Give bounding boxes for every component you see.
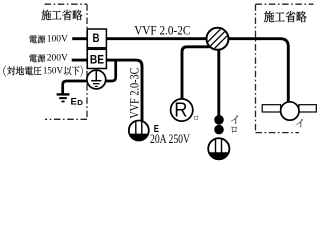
label: ro (switch) — [231, 127, 236, 133]
label: 電源100V — [29, 34, 68, 44]
switch ro — [214, 125, 224, 135]
wire: joint box to lamp receptacle R — [182, 47, 210, 100]
label: E (earth pole) — [154, 124, 160, 135]
svg-text:VVF 2.0-2C: VVF 2.0-2C — [134, 23, 190, 37]
label: 電源200V — [29, 53, 68, 63]
label: VVF 2.0-3C (vertical) — [127, 68, 141, 119]
svg-text:VVF 2.0-3C: VVF 2.0-3C — [127, 68, 141, 119]
VVF joint box (hatched circle) — [207, 28, 229, 50]
earth terminal (circle with earth mark) — [87, 70, 106, 89]
label: VVF 2.0-2C — [134, 23, 190, 37]
wire: 100V source lead — [72, 37, 88, 40]
label: 施工省略 (left) — [41, 10, 82, 20]
label: (対地電圧150V以下) — [3, 65, 82, 76]
ground electrode symbol — [57, 94, 70, 101]
wire: 200V source lead — [72, 59, 88, 62]
wire: earth terminal to ground electrode — [63, 81, 88, 94]
label: 施工省略 (right) — [264, 11, 307, 22]
construction-omitted boundary (left source region) — [45, 4, 88, 119]
wire: joint box down to switches — [217, 48, 220, 116]
svg-text:R: R — [174, 99, 187, 121]
label: ro (R) — [194, 116, 198, 120]
label: i (switch) — [231, 115, 238, 124]
breaker B (MCB) — [87, 29, 106, 48]
wire: BE to 250V receptacle (VVF 2.0-3C run) — [106, 60, 142, 121]
label: i (fluorescent) — [296, 119, 303, 128]
svg-text:150V: 150V — [43, 65, 63, 75]
label: ED earth electrode — [71, 96, 84, 107]
svg-text:D: D — [77, 98, 83, 107]
svg-text:B: B — [93, 31, 100, 45]
breaker BE (ELCB) — [87, 49, 106, 68]
svg-text:200V: 200V — [47, 53, 68, 63]
receptacle 20A 250V with earth — [129, 121, 149, 141]
wire: earth conductor joining 3C run — [105, 62, 116, 82]
fluorescent luminaire — [262, 102, 316, 120]
svg-text:100V: 100V — [47, 34, 68, 44]
svg-text:20A 250V: 20A 250V — [150, 132, 190, 146]
wire: B to joint box (VVF 2.0-2C run) — [106, 37, 207, 40]
svg-text:BE: BE — [90, 54, 104, 66]
lamp receptacle R — [171, 99, 193, 122]
switch i — [214, 115, 224, 125]
label: 20A 250V — [150, 132, 190, 146]
wire: joint box to fluorescent light — [228, 39, 288, 102]
construction-omitted boundary (right region) — [256, 4, 314, 132]
receptacle below switches — [208, 138, 229, 159]
